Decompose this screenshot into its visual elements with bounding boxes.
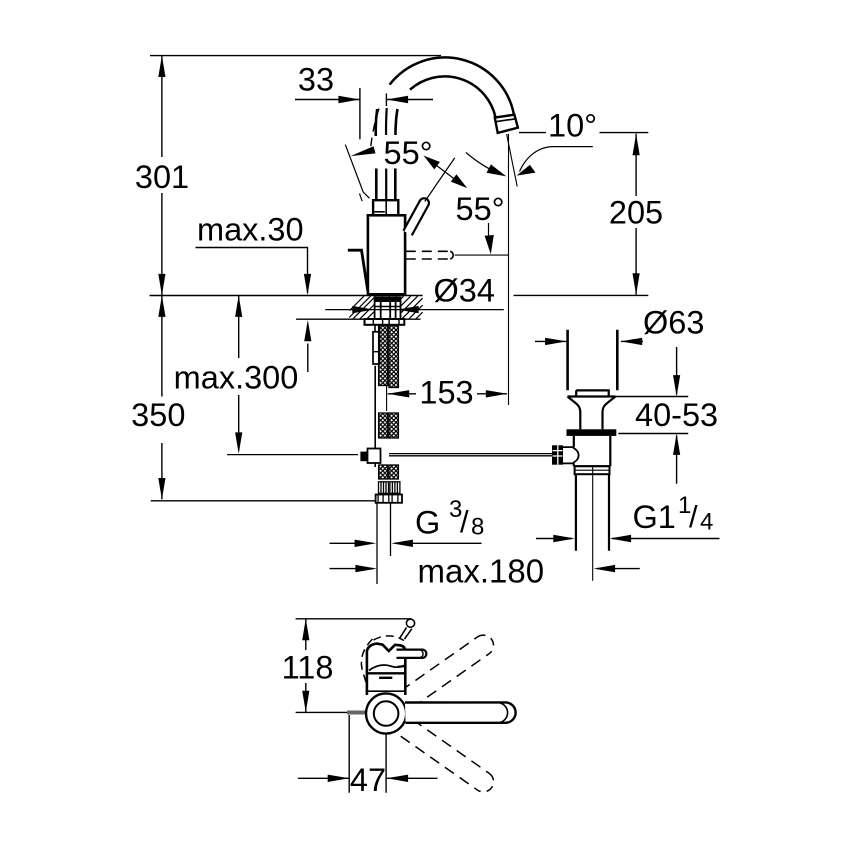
shank nut dark band (375, 297, 401, 303)
dim max.300 arrow up (235, 296, 242, 317)
dim O63 (535, 340, 643, 342)
gasket ring (567, 429, 617, 436)
dim 301 line (161, 56, 163, 296)
hose nut (376, 495, 402, 503)
dim O63 arrow right (621, 338, 643, 345)
vertical pop-up rod (374, 366, 376, 451)
tailpipe (576, 474, 609, 551)
dim O34 arrow right (397, 306, 419, 313)
dim 153 arrow right (486, 390, 508, 397)
dim 118 arrow up (302, 619, 309, 640)
dim 33 ext line right (385, 94, 387, 107)
spout pipe right upper stroke (395, 109, 397, 135)
hose section2 right column (389, 413, 399, 438)
dim G3/8 arrow right (391, 540, 413, 547)
pop-up rod housing (373, 332, 380, 364)
svg-text:Ø34: Ø34 (434, 273, 495, 309)
handle cap inner arc (500, 703, 508, 722)
dim G1 1/4 arrow right (610, 535, 632, 542)
knob stem (563, 447, 579, 463)
svg-text:4: 4 (700, 509, 713, 536)
body lower division (367, 690, 405, 692)
handle bar (405, 702, 516, 722)
svg-text:153: 153 (419, 375, 473, 411)
left angle arc arrowhead (487, 164, 507, 176)
dim O63 arrow left (545, 338, 567, 345)
spout pipe left edge upper stroke (376, 109, 377, 136)
wavy joint line (369, 665, 405, 670)
deck hatching (349, 296, 422, 319)
hose section2 left column (379, 413, 388, 438)
dim 33 (295, 88, 433, 139)
55-1 cross arrowhead upper (424, 156, 440, 170)
max.300 leader arrow to deck underside (304, 320, 311, 341)
hose section3 right column (389, 465, 399, 479)
phantom swivel dashes left of pipe (371, 109, 379, 147)
ext line top of spout (150, 55, 441, 57)
pivot inner circle (374, 701, 399, 726)
dim G1 1/4 (536, 538, 720, 540)
dim 301 arrow down (158, 274, 165, 295)
side pin cap inner arc (420, 650, 423, 658)
svg-text:8: 8 (471, 514, 484, 541)
dim max.300 (238, 296, 240, 451)
55-2 leader (488, 223, 490, 238)
hose centerline below break (386, 386, 388, 411)
svg-text:max.300: max.300 (174, 360, 299, 396)
dim 350 (151, 296, 376, 501)
logo dash (379, 677, 392, 679)
plug cap (576, 390, 609, 396)
svg-text:Ø63: Ø63 (643, 305, 704, 341)
svg-text:55°: 55° (456, 191, 505, 227)
svg-text:55°: 55° (384, 135, 433, 171)
dim G3/8 arrow left (355, 540, 377, 547)
svg-text:/: / (460, 504, 469, 539)
spout outer arc (390, 57, 514, 115)
lever centerline thin (455, 254, 509, 256)
angle arc left of vertical (466, 153, 501, 175)
pivot outer circle (366, 693, 406, 733)
10deg arc arrowhead (517, 165, 536, 176)
rod clamp at faucet (360, 449, 380, 468)
dim max.300 arrow down (235, 432, 242, 453)
body division line (367, 672, 405, 674)
upward pin sides (400, 628, 412, 640)
hose tails (377, 503, 391, 584)
flange trumpet (568, 397, 616, 430)
faucet body (368, 215, 405, 294)
svg-text:118: 118 (282, 650, 334, 686)
350 bottom ref line (151, 500, 376, 502)
svg-text:/: / (689, 499, 698, 534)
joint scribble (398, 665, 405, 668)
dashed lever end cap (450, 251, 453, 259)
threaded shank through deck (374, 297, 401, 320)
ext line bottom (296, 711, 347, 713)
dim 205 arrow up (633, 134, 640, 155)
dashed lever horizontal position: bottom edge (406, 258, 451, 260)
max.300 leader to deck underside (307, 344, 309, 373)
nozzle / mousseur (495, 115, 518, 133)
dim 33 arrow right (387, 96, 409, 103)
horizontal side pin cylinder (397, 650, 427, 658)
dim 153 (388, 393, 507, 395)
ext line top (296, 618, 411, 620)
coupling (575, 466, 610, 474)
dim 47 arrow left (328, 775, 350, 782)
dim G1 1/4 arrow left (553, 535, 575, 542)
svg-text:G: G (415, 505, 440, 541)
10deg reference line at outlet height (519, 132, 648, 134)
dim G 3/8 (330, 542, 482, 544)
max.30 leader (196, 248, 308, 294)
pop-up rod horizontal + max300 ref (227, 454, 552, 456)
hose section 1 left (braided) (0, 0, 1, 1)
55-1 cross arrowhead lower (451, 174, 467, 188)
svg-text:33: 33 (298, 62, 334, 98)
dim 118 line (305, 619, 307, 712)
knurled knob (552, 445, 563, 464)
collar inner step (374, 211, 385, 213)
dim 205 arrow down (633, 273, 640, 294)
dim 153 arrow left (388, 390, 410, 397)
spout inner arc (410, 76, 496, 117)
svg-text:G1: G1 (633, 499, 676, 535)
dim 47 (298, 715, 438, 793)
collar inner vertical (385, 200, 387, 215)
max.30 leader arrow (304, 274, 311, 295)
55-2 leader arrow down (485, 235, 494, 254)
svg-text:max.180: max.180 (418, 553, 545, 590)
tailpipe centerline (592, 467, 594, 581)
dim max.180 arrow right (594, 565, 616, 572)
phantom lever line (345, 145, 463, 202)
dim 40-53 (613, 347, 688, 484)
spout pipe middle upper stroke (385, 108, 388, 135)
10deg leader arc right (520, 147, 593, 172)
hose connector ribbed left (376, 482, 402, 503)
deck bottom line (296, 318, 420, 320)
dim 118 arrow down (302, 691, 309, 712)
dim 33 arrow left (338, 96, 360, 103)
dashed tube up-right (401, 637, 490, 708)
deck top surface line (150, 294, 649, 296)
double arrow across lever axis (428, 159, 463, 186)
drain upper cylinder (568, 330, 618, 390)
dim 205 (635, 134, 637, 295)
svg-text:301: 301 (135, 159, 189, 195)
spout pipe middle line (385, 169, 387, 201)
hose section1 left column (379, 326, 388, 386)
dashed tube down-right (401, 720, 490, 791)
upward pin circle (406, 619, 414, 627)
dim max.180 (330, 568, 640, 570)
dim 33 ext line left (359, 88, 361, 139)
dim 301 arrows (158, 56, 165, 296)
svg-text:350: 350 (131, 397, 185, 433)
dim O34 arrow left (352, 306, 373, 313)
dim max.180 arrow left (355, 565, 377, 572)
spout pipe left edge (375, 169, 378, 201)
lever axis extension thin line (425, 158, 455, 202)
dim 350 arrow down (158, 478, 165, 499)
dim 350 arrow up (158, 296, 165, 317)
hose section3 left column (379, 465, 388, 479)
spout collar (373, 200, 398, 215)
dim 40-53 arrow down (673, 375, 680, 396)
pop-up rod actuator (bent rod at left of body) (348, 250, 368, 291)
svg-text:47: 47 (350, 762, 386, 798)
dim O34 (325, 309, 504, 311)
vertical line from nozzle (508, 134, 510, 405)
drain body (574, 436, 611, 466)
dim 301 arrow up (158, 56, 165, 77)
nozzle inner band (496, 119, 516, 122)
55-1 leader arrow to phantom lever line (351, 146, 376, 156)
spout pipe right edge (394, 169, 397, 201)
svg-text:205: 205 (609, 195, 663, 231)
lower body outline (367, 644, 405, 695)
stream direction line 10deg (507, 134, 518, 187)
svg-text:max.30: max.30 (197, 212, 304, 248)
dashed swing arc over body top (374, 636, 405, 641)
dim 47 arrow right (387, 775, 409, 782)
joystick lever (55 deg up) (403, 198, 429, 235)
svg-text:10°: 10° (548, 108, 597, 144)
dim 33 line (295, 99, 433, 101)
pop-up rod housing tab (375, 325, 380, 332)
left gray pin (347, 711, 366, 715)
dim 40-53 arrow up (673, 434, 680, 455)
washer plate under deck (365, 319, 405, 325)
dashed lever horizontal position: top edge (406, 250, 451, 252)
hose section1 right column (389, 326, 399, 388)
svg-text:40-53: 40-53 (635, 397, 718, 433)
dashed swing arc left of body (361, 639, 372, 684)
